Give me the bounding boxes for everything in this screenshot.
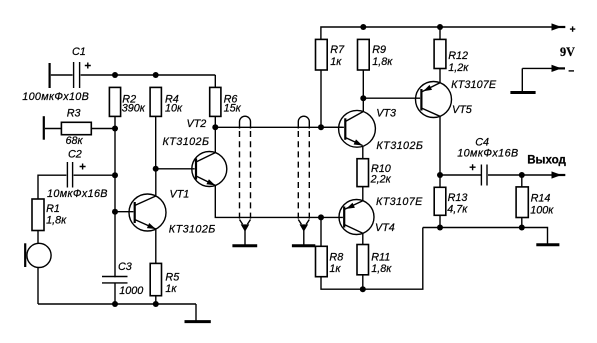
node (VT2 collector) xyxy=(212,124,218,130)
resistor R2 xyxy=(109,87,145,116)
wire (VT3 emitter) xyxy=(362,146,364,159)
svg-text:15к: 15к xyxy=(224,103,242,115)
wire (VT2 emitter) xyxy=(215,185,343,217)
svg-text:VT3: VT3 xyxy=(376,108,396,120)
wire (R6 bottom / VT2 collector) xyxy=(214,116,216,152)
wire top-left rail xyxy=(81,74,216,76)
wire +9V rail xyxy=(321,27,553,39)
svg-text:2,2к: 2,2к xyxy=(370,174,392,186)
node (C3 bottom) xyxy=(112,301,118,307)
wire xyxy=(37,267,39,304)
svg-text:С1: С1 xyxy=(72,46,86,58)
svg-text:1,8к: 1,8к xyxy=(46,215,67,227)
node (VT1 collector / VT2 base) xyxy=(153,166,159,172)
resistor R3 xyxy=(61,108,91,148)
ground xyxy=(185,304,211,322)
wire (VT5 base) xyxy=(363,97,420,99)
node (R14 bottom) xyxy=(519,225,525,231)
svg-text:1,8к: 1,8к xyxy=(372,56,393,68)
transistor VT5 xyxy=(416,79,497,118)
wire xyxy=(155,116,157,168)
resistor R9 xyxy=(358,39,394,70)
wire xyxy=(74,174,115,176)
svg-text:1к: 1к xyxy=(165,283,177,295)
capacitor C3 xyxy=(102,261,143,304)
svg-text:R9: R9 xyxy=(372,44,386,56)
wire xyxy=(362,187,364,201)
wire (VT4 collector) xyxy=(362,233,364,244)
wire xyxy=(439,215,441,227)
capacitor C2 xyxy=(47,149,108,201)
wire (VT3 collector) xyxy=(362,98,364,111)
node (R8 top / VT4 base) xyxy=(318,214,324,220)
resistor R12 xyxy=(434,39,469,74)
svg-text:VT5: VT5 xyxy=(452,104,473,116)
node (R9 top) xyxy=(360,24,366,30)
svg-text:R11: R11 xyxy=(371,252,390,264)
wire (VT5 emitter) xyxy=(439,69,441,83)
resistor R13 xyxy=(434,187,468,215)
svg-text:R12: R12 xyxy=(448,50,468,62)
capacitor C1 xyxy=(22,46,91,103)
ground (cable 2 shield) xyxy=(292,244,315,247)
wire xyxy=(440,174,481,176)
svg-text:4,7к: 4,7к xyxy=(447,204,468,216)
node (R12 top) xyxy=(437,24,443,30)
svg-text:R7: R7 xyxy=(330,44,345,56)
node (R4 top) xyxy=(153,72,159,78)
wire xyxy=(521,218,523,228)
svg-text:КТ3107Е: КТ3107Е xyxy=(376,196,423,208)
ground (battery minus) xyxy=(510,91,535,94)
svg-text:Выход: Выход xyxy=(527,154,566,167)
node (R11 bottom) xyxy=(360,286,366,292)
wire to R6 xyxy=(214,75,216,87)
svg-text:R3: R3 xyxy=(67,108,81,120)
svg-text:КТ3102Б: КТ3102Б xyxy=(163,136,210,148)
input terminal (R3 left) xyxy=(43,116,45,140)
resistor R14 xyxy=(516,187,554,218)
svg-text:VT2: VT2 xyxy=(187,118,207,130)
svg-text:1000: 1000 xyxy=(119,285,143,297)
wire xyxy=(91,128,115,130)
svg-text:КТ3102Б: КТ3102Б xyxy=(376,140,423,152)
wire xyxy=(155,296,157,304)
wire signal line 1 xyxy=(215,126,342,128)
svg-text:1к: 1к xyxy=(330,56,342,68)
transistor VT3 xyxy=(339,108,423,152)
svg-text:R14: R14 xyxy=(531,192,551,204)
svg-text:С2: С2 xyxy=(68,149,82,161)
wire bottom-left common xyxy=(38,303,196,305)
wire xyxy=(37,231,39,244)
svg-text:68к: 68к xyxy=(66,135,84,147)
node (VT3 collector / VT5 base) xyxy=(360,95,366,101)
wire (VT2 base) xyxy=(156,168,195,170)
node (output) xyxy=(519,172,525,178)
wire xyxy=(362,275,364,289)
svg-text:VT1: VT1 xyxy=(170,188,190,200)
node (VT1 base) xyxy=(112,209,118,215)
wire (VT3 base) xyxy=(321,126,344,128)
wire (VT1 emitter) xyxy=(155,229,157,263)
svg-text:10мкФх16В: 10мкФх16В xyxy=(47,188,108,200)
svg-text:VT4: VT4 xyxy=(375,222,395,234)
svg-text:10мкФх16В: 10мкФх16В xyxy=(457,148,518,160)
svg-text:R1: R1 xyxy=(46,203,60,215)
ground (cable 1 shield) xyxy=(232,244,257,247)
svg-text:9V: 9V xyxy=(560,45,575,59)
shielded cable 1 xyxy=(240,116,251,246)
node (R13 bottom) xyxy=(437,225,443,231)
wire xyxy=(51,74,73,76)
wire xyxy=(45,128,61,130)
resistor R7 xyxy=(316,39,346,70)
power +9V arrow xyxy=(552,23,566,30)
shielded cable 2 xyxy=(298,116,309,246)
resistor R4 xyxy=(150,87,183,116)
svg-text:1,2к: 1,2к xyxy=(448,62,469,74)
capacitor C4 xyxy=(457,136,518,185)
resistor R6 xyxy=(210,87,242,116)
power -9V terminal xyxy=(522,65,574,93)
node (R5 bottom) xyxy=(153,301,159,307)
node (R3 right) xyxy=(112,126,118,132)
resistor R11 xyxy=(357,245,392,276)
resistor R10 xyxy=(357,159,392,187)
svg-text:С3: С3 xyxy=(118,261,132,273)
svg-text:1к: 1к xyxy=(329,263,341,275)
svg-text:С4: С4 xyxy=(475,136,489,148)
node (C2 right) xyxy=(112,172,118,178)
wire (VT5 collector) xyxy=(439,116,441,175)
wire (VT1 base) xyxy=(115,211,133,213)
wire xyxy=(439,27,441,39)
wire xyxy=(362,70,364,98)
ground (output) xyxy=(536,243,559,246)
svg-text:R5: R5 xyxy=(165,271,180,283)
node (R7 bottom / VT3 base) xyxy=(318,124,324,130)
svg-text:R13: R13 xyxy=(448,192,468,204)
transistor VT4 xyxy=(339,196,423,235)
output arrow xyxy=(552,171,566,178)
wire xyxy=(320,70,322,127)
resistor R5 xyxy=(150,263,180,295)
input terminal (C1 left) xyxy=(48,63,50,88)
resistor R1 xyxy=(32,199,67,231)
svg-text:1,8к: 1,8к xyxy=(371,263,392,275)
wire (R8 leads) xyxy=(320,217,322,246)
resistor R8 xyxy=(316,246,344,276)
node (output of VT5) xyxy=(437,172,443,178)
svg-text:100к: 100к xyxy=(530,204,554,216)
svg-text:390к: 390к xyxy=(122,103,146,115)
wire bottom-right rail xyxy=(423,228,548,245)
wire (base bias column) xyxy=(114,116,116,277)
svg-text:КТ3107Е: КТ3107Е xyxy=(451,79,497,91)
svg-text:10к: 10к xyxy=(165,103,183,115)
wire xyxy=(521,175,523,187)
wire (VT1 collector) xyxy=(155,169,157,196)
transistor VT1 xyxy=(129,188,215,235)
wire xyxy=(439,175,441,187)
svg-text:100мкФх10В: 100мкФх10В xyxy=(22,91,89,103)
wire bottom feedback rail xyxy=(321,228,423,290)
wire xyxy=(488,174,553,176)
microphone BM1 xyxy=(25,243,51,267)
wire xyxy=(38,175,66,199)
plus mark xyxy=(570,26,575,31)
svg-text:КТ3102Б: КТ3102Б xyxy=(169,224,216,236)
transistor VT2 xyxy=(163,118,227,187)
node (R2 top) xyxy=(112,72,118,78)
svg-text:R8: R8 xyxy=(329,252,343,264)
